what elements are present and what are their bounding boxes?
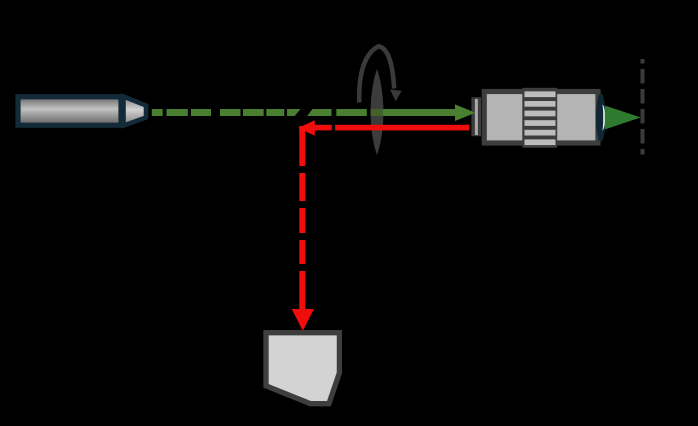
objective back plate [471,97,481,136]
red emission beam horizontal with left arrowhead [298,120,469,135]
detector [266,333,339,404]
laser pointer body [18,97,146,126]
optical axis dashed line [641,59,645,155]
objective main body [484,92,598,144]
focused green cone [605,106,641,130]
rotation arrow around lens [359,46,394,102]
green beam dashed segment (dichroic to lens) [307,109,367,116]
green beam solid segment with arrowhead (lens to objective) [383,104,476,121]
objective front lens [596,93,606,142]
rotation arrowhead [390,89,402,101]
dim green beam crossing lens [371,109,384,116]
red emission beam vertical dashed with down arrowhead [292,126,314,331]
scan lens [371,69,384,155]
green excitation beam dashed segment (laser to dichroic) [152,109,301,116]
objective threaded middle section [522,88,557,148]
laser pointer tip [124,97,147,126]
